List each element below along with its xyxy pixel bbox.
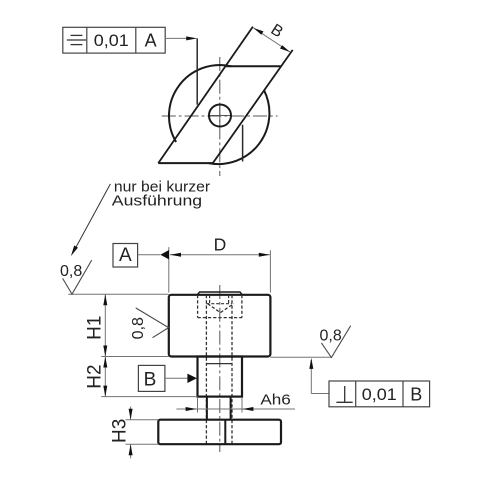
slot edge in flange: [224, 420, 226, 445]
counterbore hidden outline: [198, 295, 242, 318]
flange top extended line: [126, 419, 159, 421]
center hole circle: [209, 105, 231, 127]
body (top cylinder) outline: [169, 295, 271, 357]
right flat edge: [242, 125, 244, 162]
countersink cone hidden: [208, 304, 234, 313]
neck left edge: [206, 397, 208, 420]
leader arrow: [186, 36, 197, 40]
outer circle arc (left/top): [169, 65, 231, 142]
centerline vertical (top view): [219, 57, 221, 176]
roughness symbol left (rotated) 0,8: [136, 308, 169, 338]
feature control frame: symmetry 0,01 A: [63, 27, 165, 53]
left flat edge + leader extension: [196, 38, 198, 104]
surface line mid-left (body bottom extended): [101, 356, 169, 358]
feature control frame: perpendicularity 0,01 B: [329, 381, 430, 407]
neck right edge: [230, 397, 232, 420]
left slant edge (extended for B dimension): [158, 27, 253, 164]
svg-text:0,8: 0,8: [60, 263, 82, 280]
parallelogram top edge: [226, 65, 281, 67]
Ah6 left arrow: [186, 407, 197, 411]
svg-text:0,8: 0,8: [130, 317, 147, 339]
arrow B upper: [254, 28, 264, 35]
D left arrow: [170, 253, 181, 257]
thread end line: [206, 363, 231, 365]
H2 dimension line: [104, 357, 106, 397]
flange bottom extended line: [126, 443, 159, 445]
Ah6 right arrow: [242, 407, 253, 411]
svg-text:H2: H2: [85, 364, 106, 388]
svg-text:0,01: 0,01: [94, 31, 129, 50]
center cross horizontal: [208, 115, 232, 117]
dimension B line: [254, 28, 291, 52]
D extension line right: [269, 250, 271, 292]
note leader line: [75, 184, 110, 249]
counterbore lip on top: [197, 292, 242, 295]
svg-text:B: B: [410, 385, 422, 405]
roughness symbol right 0,8: [321, 326, 350, 358]
D right arrow: [259, 253, 270, 257]
perpendicularity symbol: [336, 386, 352, 402]
thread hidden lines: [206, 295, 232, 444]
datum A leader: [138, 254, 161, 256]
datum B triangle: [187, 374, 197, 383]
outer circle (cylinder): [209, 90, 270, 164]
H1 dimension line: [104, 294, 106, 356]
svg-text:A: A: [145, 31, 157, 51]
right slant edge (extended for B dimension): [213, 50, 293, 163]
svg-text:Ausführung: Ausführung: [112, 193, 202, 209]
note leader arrow: [71, 246, 78, 257]
Ah6 dimension line: [176, 408, 295, 410]
H3 upper segment: [130, 407, 132, 420]
H3 lower segment: [130, 444, 132, 458]
centerline vertical (front view): [219, 285, 221, 452]
svg-text:D: D: [214, 235, 227, 255]
datum A box: [113, 244, 138, 268]
symmetry symbol: [67, 35, 86, 44]
arrow B lower: [280, 45, 290, 52]
svg-text:B: B: [144, 370, 157, 391]
svg-text:A: A: [119, 245, 132, 266]
perpendicularity frame leader: [310, 360, 312, 394]
surface line mid-right (body bottom extended right): [270, 356, 331, 358]
shaft outline: [198, 357, 243, 397]
flange outline: [158, 420, 281, 445]
Ah6 extension line right: [241, 398, 243, 413]
roughness symbol top-left 0,8: [63, 260, 92, 294]
datum A triangle: [160, 250, 169, 259]
centerline horizontal (top view): [162, 115, 278, 117]
surface line top-left (body top extended): [68, 293, 169, 295]
thread minor top bits: [206, 295, 231, 304]
leader from frame to flat edge: [165, 37, 188, 39]
surface line (shaft bottom extended): [101, 396, 197, 398]
datum B box: [138, 365, 165, 391]
Ah6 extension line left: [197, 398, 199, 413]
center cross vertical: [219, 104, 221, 128]
svg-text:H1: H1: [85, 316, 106, 340]
svg-text:0,8: 0,8: [320, 328, 342, 345]
svg-text:Ah6: Ah6: [260, 391, 291, 408]
D dimension line: [170, 254, 270, 256]
svg-text:0,01: 0,01: [362, 385, 397, 404]
D extension line left: [168, 247, 170, 292]
datum B leader: [165, 377, 188, 379]
leader up arrow: [309, 358, 313, 369]
parallelogram bottom edge: [158, 162, 213, 164]
svg-text:H3: H3: [109, 419, 130, 443]
